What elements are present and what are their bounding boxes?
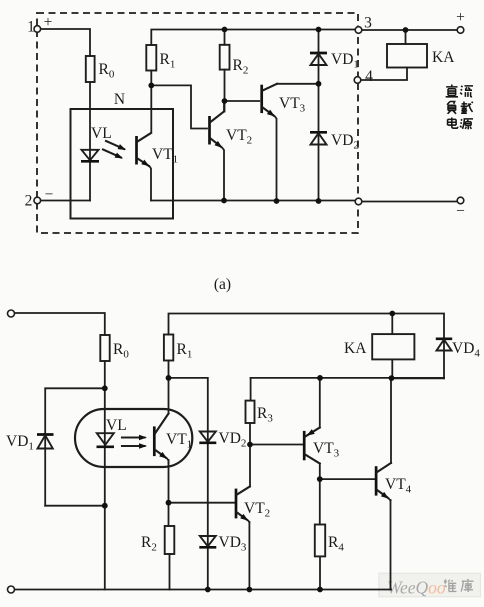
svg-text:N: N	[114, 91, 125, 108]
svg-text:VL: VL	[106, 417, 127, 434]
svg-text:+: +	[44, 14, 53, 31]
svg-text:4: 4	[365, 68, 373, 85]
svg-text:WeeQoo: WeeQoo	[387, 578, 446, 598]
svg-text:−: −	[456, 203, 465, 220]
svg-text:KA: KA	[432, 49, 455, 66]
svg-text:(a): (a)	[214, 276, 231, 293]
svg-text:VL: VL	[91, 125, 112, 142]
svg-text:+: +	[456, 9, 465, 26]
svg-text:−: −	[45, 186, 54, 203]
svg-text:KA: KA	[344, 340, 367, 357]
svg-text:2: 2	[25, 193, 33, 210]
svg-text:3: 3	[364, 15, 372, 32]
svg-text:1: 1	[27, 19, 35, 36]
